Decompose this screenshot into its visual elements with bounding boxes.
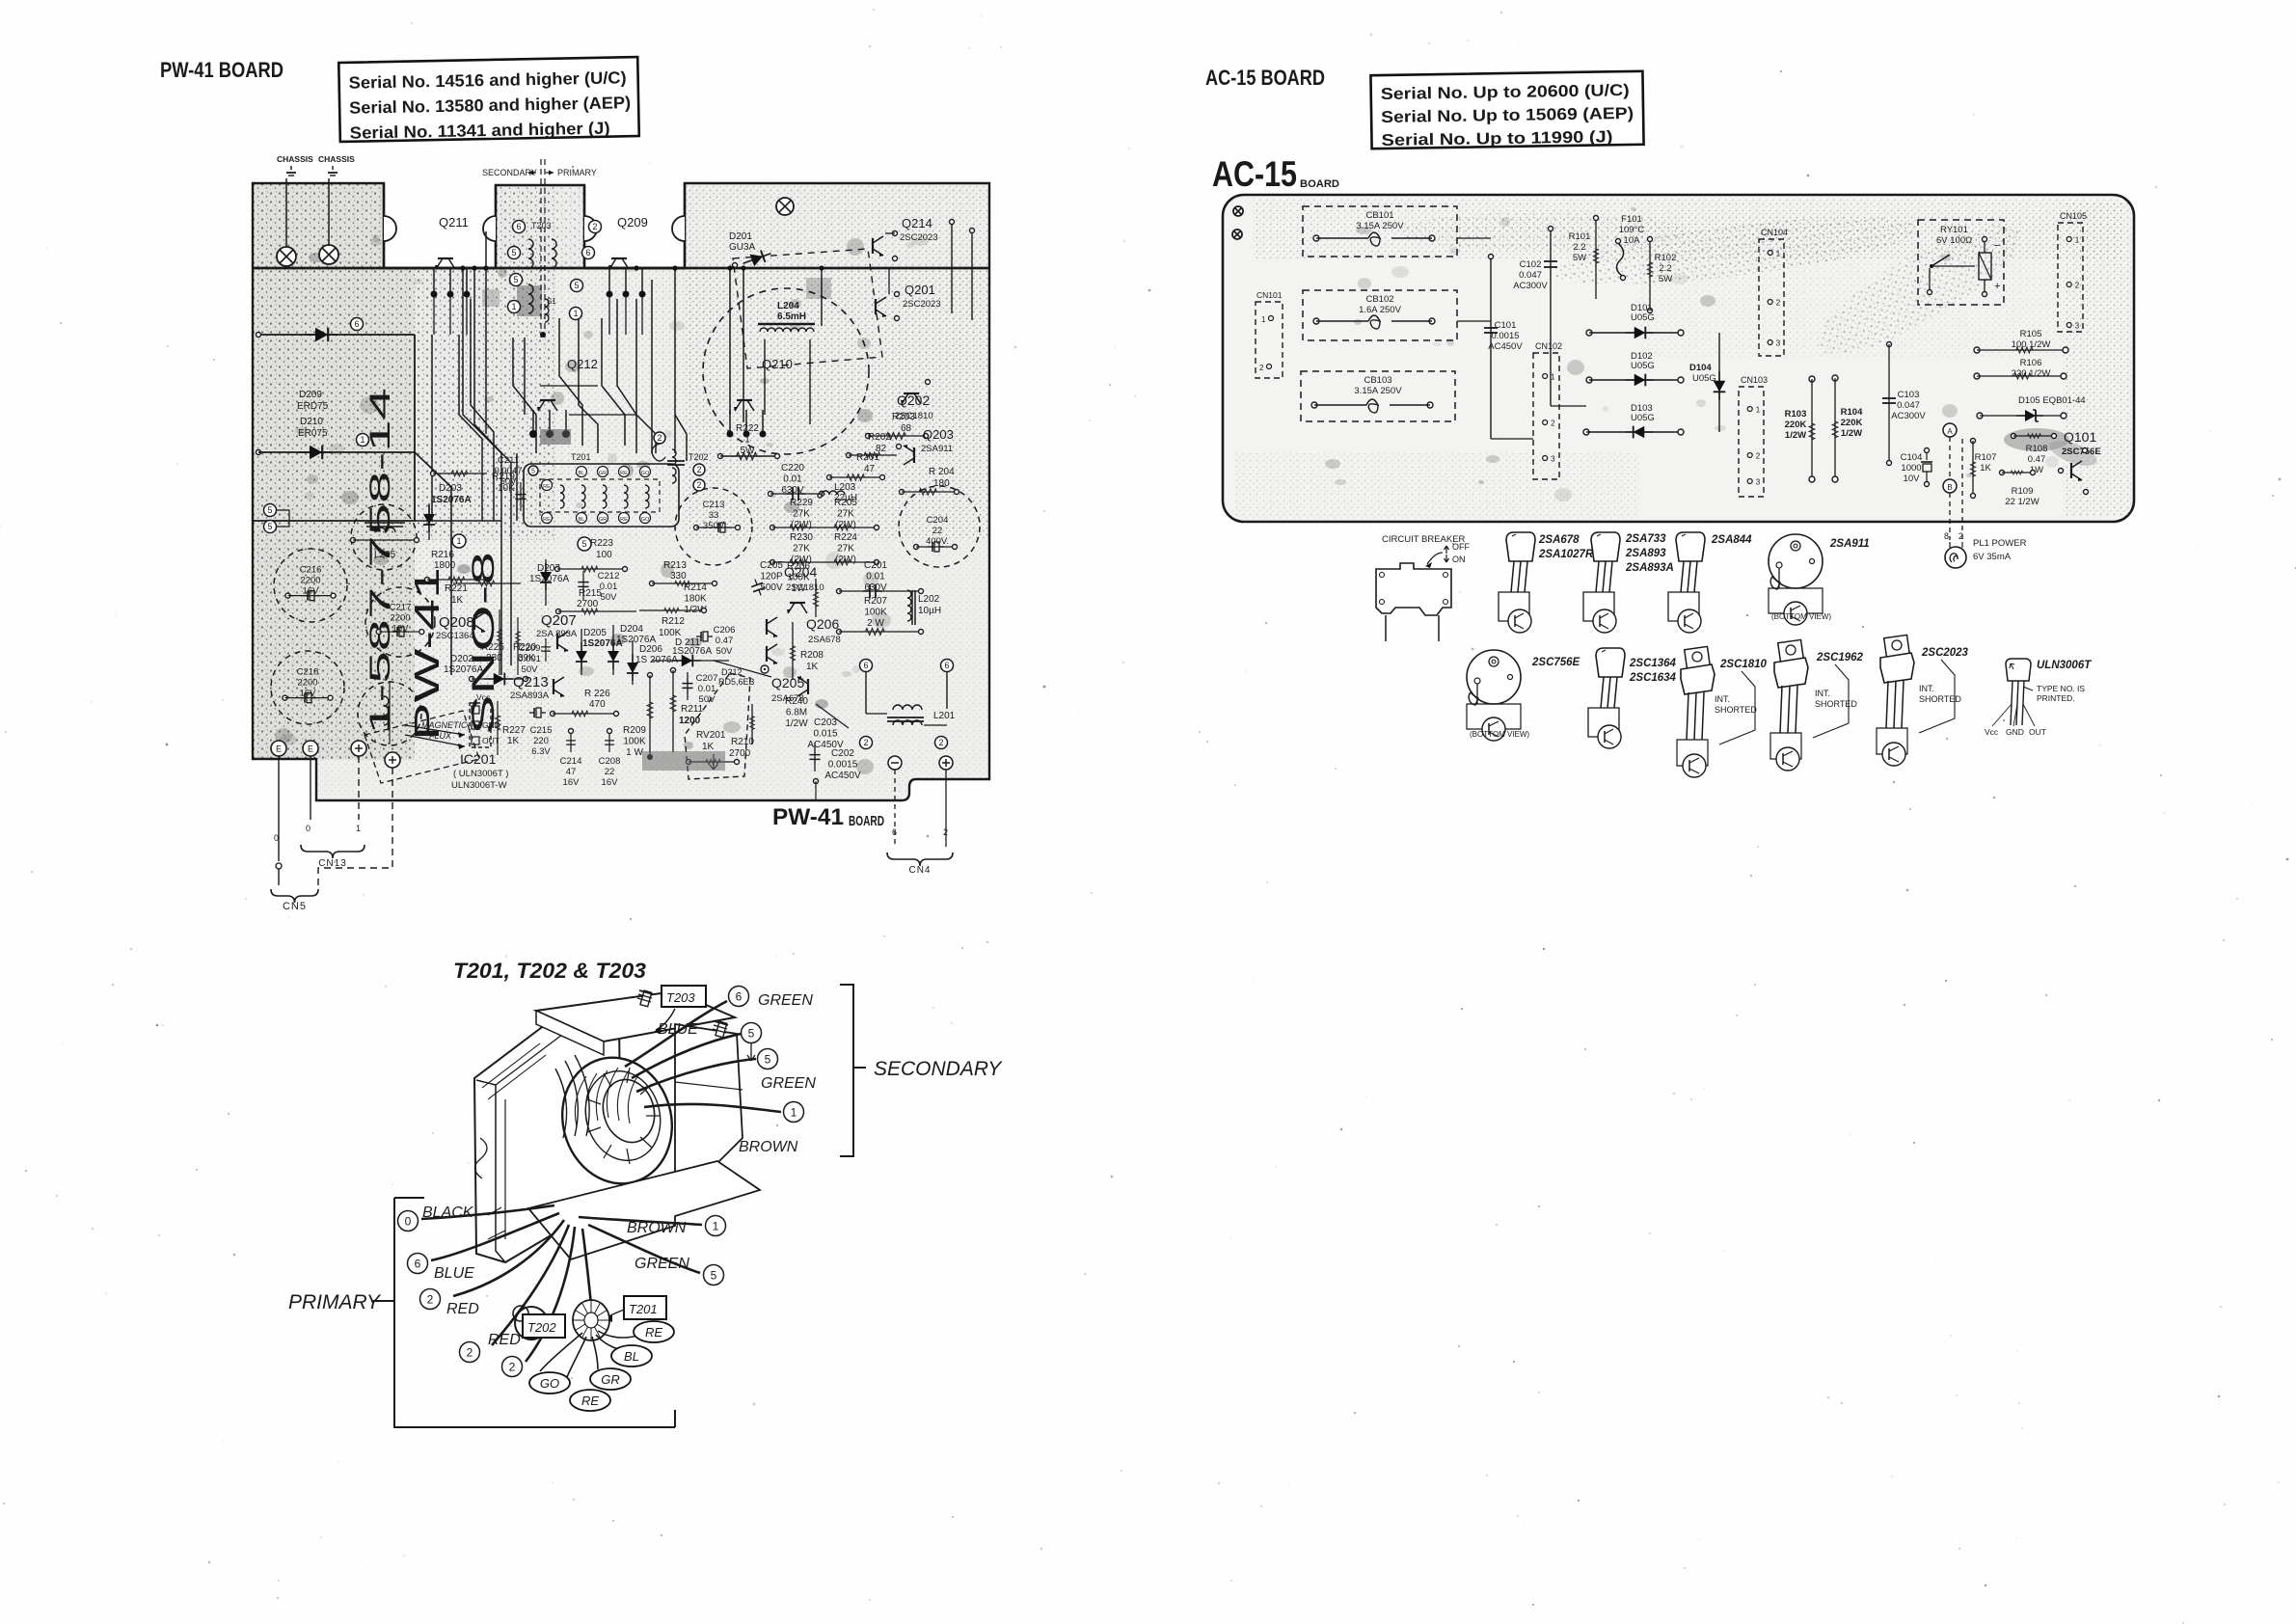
svg-text:OUT: OUT — [482, 736, 500, 745]
svg-text:6: 6 — [516, 222, 521, 231]
svg-text:C2070.0150V: C2070.0150V — [696, 673, 718, 705]
svg-text:3: 3 — [1756, 478, 1761, 487]
svg-text:RE: RE — [543, 484, 551, 490]
svg-text:ULN3006T-W: ULN3006T-W — [451, 780, 507, 791]
svg-text:1K: 1K — [806, 662, 819, 672]
svg-text:T202: T202 — [689, 452, 709, 462]
svg-text:R2406.8M1/2W: R2406.8M1/2W — [785, 696, 808, 729]
svg-text:6: 6 — [415, 1257, 421, 1270]
svg-text:OFF: OFF — [1452, 542, 1470, 552]
svg-text:1: 1 — [573, 309, 578, 318]
svg-text:IC201: IC201 — [460, 751, 497, 767]
svg-text:Serial No. Up to 20600 (U/C): Serial No. Up to 20600 (U/C) — [1381, 81, 1630, 103]
svg-text:5: 5 — [513, 275, 518, 284]
svg-text:BLACK: BLACK — [422, 1204, 474, 1221]
svg-text:AC-15 BOARD: AC-15 BOARD — [1205, 66, 1325, 90]
svg-text:RE: RE — [543, 517, 551, 523]
svg-text:2700: 2700 — [577, 599, 599, 609]
svg-text:D212: D212 — [721, 667, 743, 677]
svg-text:2: 2 — [1776, 299, 1781, 308]
svg-text:BROWN: BROWN — [739, 1139, 798, 1155]
svg-text:Q206: Q206 — [806, 616, 839, 632]
svg-text:RED: RED — [488, 1332, 521, 1348]
svg-text:3.15A 250V: 3.15A 250V — [1354, 386, 1402, 396]
svg-text:R207100K2 W: R207100K2 W — [864, 596, 887, 629]
svg-text:R202: R202 — [868, 432, 891, 443]
svg-text:5: 5 — [267, 522, 272, 531]
svg-text:CN105: CN105 — [2060, 211, 2087, 221]
svg-text:Q203: Q203 — [923, 427, 954, 442]
svg-text:SHORTED: SHORTED — [1815, 699, 1857, 709]
svg-text:1S2076A: 1S2076A — [444, 664, 483, 675]
svg-text:2SA893A: 2SA893A — [510, 690, 550, 701]
svg-text:R104220K1/2W: R104220K1/2W — [1841, 407, 1863, 439]
svg-text:U05G: U05G — [1692, 373, 1716, 384]
svg-text:2: 2 — [657, 433, 662, 443]
svg-text:C2090.00150V: C2090.00150V — [518, 643, 541, 675]
svg-text:2SC1810: 2SC1810 — [1719, 659, 1768, 670]
svg-text:Q209: Q209 — [617, 215, 648, 230]
svg-text:Vcc: Vcc — [1985, 727, 1999, 737]
svg-text:PW-41: PW-41 — [772, 804, 844, 830]
svg-text:1: 1 — [2075, 236, 2080, 245]
svg-text:D206: D206 — [639, 644, 662, 655]
svg-text:AC-15: AC-15 — [1212, 154, 1297, 194]
svg-text:3: 3 — [2075, 322, 2080, 331]
svg-text:R225: R225 — [481, 642, 504, 653]
svg-text:6: 6 — [944, 661, 949, 670]
svg-text:BL: BL — [579, 517, 585, 523]
svg-text:1800: 1800 — [434, 560, 456, 571]
svg-text:PRIMARY: PRIMARY — [557, 168, 597, 177]
svg-text:1: 1 — [713, 1219, 719, 1232]
svg-text:ER075: ER075 — [298, 428, 328, 439]
svg-text:T203: T203 — [666, 990, 695, 1005]
svg-text:U05G: U05G — [1631, 312, 1655, 323]
svg-text:1: 1 — [1261, 315, 1266, 324]
svg-text:BLUE: BLUE — [434, 1265, 474, 1282]
svg-text:PW-41 BOARD: PW-41 BOARD — [160, 58, 284, 82]
svg-text:1: 1 — [456, 536, 461, 546]
svg-text:R210: R210 — [731, 737, 754, 747]
svg-text:GR: GR — [599, 517, 607, 523]
svg-text:6: 6 — [863, 661, 868, 670]
svg-text:R213: R213 — [663, 560, 687, 571]
svg-text:6: 6 — [892, 827, 897, 837]
svg-text:Q211: Q211 — [439, 215, 469, 230]
svg-text:Q208: Q208 — [439, 614, 474, 631]
svg-text:BLUE: BLUE — [658, 1021, 698, 1038]
svg-text:2SA911: 2SA911 — [921, 444, 953, 454]
svg-text:6: 6 — [354, 319, 359, 329]
svg-text:470: 470 — [589, 699, 606, 710]
svg-text:2: 2 — [943, 827, 948, 837]
svg-text:CHASSIS: CHASSIS — [318, 154, 355, 164]
svg-text:BL: BL — [579, 471, 585, 476]
svg-text:GO: GO — [641, 471, 650, 476]
svg-text:U05G: U05G — [1631, 413, 1655, 423]
svg-text:1K: 1K — [451, 595, 464, 606]
svg-text:R 204: R 204 — [929, 467, 955, 477]
svg-text:2SC756E: 2SC756E — [1531, 657, 1580, 668]
svg-text:5: 5 — [748, 1026, 755, 1040]
svg-text:OUT: OUT — [2029, 727, 2046, 737]
svg-text:8: 8 — [1944, 531, 1949, 541]
svg-text:D203: D203 — [439, 483, 462, 494]
svg-text:2: 2 — [1756, 452, 1761, 461]
svg-text:1: 1 — [1756, 406, 1761, 415]
svg-text:INT.: INT. — [1815, 689, 1830, 698]
svg-text:B: B — [1947, 483, 1952, 492]
svg-text:1: 1 — [791, 1105, 797, 1119]
svg-text:CN13: CN13 — [318, 858, 347, 869]
svg-text:BROWN: BROWN — [627, 1220, 687, 1236]
svg-text:5: 5 — [511, 248, 516, 257]
svg-text:2SA678: 2SA678 — [1538, 534, 1580, 546]
svg-text:GR: GR — [601, 1372, 620, 1387]
svg-text:R208: R208 — [800, 650, 824, 661]
svg-text:CHASSIS: CHASSIS — [277, 154, 313, 164]
svg-text:C2060.4750V: C2060.4750V — [714, 625, 736, 657]
svg-text:1.6A 250V: 1.6A 250V — [1359, 305, 1402, 315]
svg-text:D205: D205 — [583, 628, 607, 638]
svg-text:2: 2 — [863, 738, 868, 747]
svg-text:2SA893: 2SA893 — [1625, 548, 1666, 559]
svg-text:2: 2 — [1259, 364, 1264, 372]
svg-text:D204: D204 — [620, 624, 643, 635]
svg-text:0: 0 — [274, 833, 279, 843]
svg-text:5: 5 — [267, 505, 272, 515]
svg-text:R219: R219 — [492, 472, 515, 482]
svg-text:1: 1 — [1551, 373, 1555, 382]
svg-text:RE: RE — [620, 517, 628, 523]
svg-text:Q213: Q213 — [513, 674, 549, 690]
svg-text:GO: GO — [540, 1376, 559, 1391]
svg-text:0: 0 — [306, 824, 311, 833]
svg-text:1K: 1K — [702, 742, 715, 752]
svg-text:5: 5 — [711, 1268, 717, 1282]
svg-text:T201: T201 — [571, 452, 591, 462]
svg-text:L204: L204 — [777, 301, 799, 311]
svg-text:R212: R212 — [662, 616, 685, 627]
svg-text:5: 5 — [531, 469, 535, 475]
svg-text:GO: GO — [641, 517, 650, 523]
svg-text:Q210: Q210 — [762, 357, 793, 371]
svg-text:3: 3 — [1551, 455, 1555, 464]
svg-text:PW-41: PW-41 — [407, 567, 446, 741]
svg-text:2: 2 — [938, 738, 943, 747]
svg-text:10µH: 10µH — [918, 606, 941, 616]
svg-text:D201: D201 — [729, 231, 752, 242]
svg-text:L203: L203 — [834, 482, 856, 493]
svg-text:CN4: CN4 — [908, 865, 931, 876]
svg-text:GR: GR — [599, 471, 607, 476]
svg-text:RD5,6EB: RD5,6EB — [718, 677, 755, 687]
svg-text:Q212: Q212 — [567, 357, 598, 371]
svg-text:47: 47 — [864, 464, 876, 474]
svg-text:GREEN: GREEN — [758, 992, 813, 1009]
svg-text:PRINTED.: PRINTED. — [2037, 693, 2075, 703]
svg-text:2700: 2700 — [729, 748, 751, 759]
svg-text:330: 330 — [670, 571, 687, 582]
svg-text:(BOTTOM VIEW): (BOTTOM VIEW) — [1771, 612, 1831, 621]
svg-text:SHORTED: SHORTED — [1919, 694, 1961, 704]
svg-text:SECONDARY: SECONDARY — [874, 1058, 1003, 1080]
svg-text:ULN3006T: ULN3006T — [2037, 660, 2092, 671]
svg-text:2SC1634: 2SC1634 — [1629, 672, 1677, 684]
svg-text:GREEN: GREEN — [635, 1256, 689, 1272]
svg-text:R 226: R 226 — [584, 689, 610, 699]
svg-text:SHORTED: SHORTED — [1715, 705, 1757, 715]
svg-text:D210: D210 — [300, 417, 323, 427]
svg-text:2SA911: 2SA911 — [1829, 538, 1870, 550]
svg-text:6: 6 — [736, 989, 743, 1003]
svg-text:1: 1 — [511, 302, 516, 311]
svg-text:BL: BL — [624, 1349, 639, 1364]
svg-text:68: 68 — [901, 423, 912, 434]
svg-text:RED: RED — [446, 1301, 479, 1317]
svg-text:C104100010V: C104100010V — [1901, 452, 1923, 484]
svg-text:RY101: RY101 — [1940, 225, 1968, 235]
svg-text:ERD75: ERD75 — [297, 401, 329, 412]
svg-text:GU3A: GU3A — [729, 242, 756, 253]
svg-text:2: 2 — [1551, 420, 1555, 428]
svg-text:ON: ON — [1452, 555, 1466, 564]
svg-text:Serial No. Up to 11990 (J): Serial No. Up to 11990 (J) — [1381, 127, 1612, 149]
svg-text:D104: D104 — [1689, 363, 1712, 373]
svg-text:CB102: CB102 — [1365, 294, 1393, 305]
svg-text:5: 5 — [581, 539, 586, 549]
svg-text:CN102: CN102 — [1535, 341, 1562, 351]
svg-text:INT.: INT. — [1715, 694, 1730, 704]
svg-text:2: 2 — [467, 1345, 473, 1359]
svg-text:1S2076A: 1S2076A — [431, 495, 472, 505]
svg-text:2SA733: 2SA733 — [1625, 533, 1666, 545]
svg-text:R215: R215 — [579, 588, 602, 599]
svg-text:6: 6 — [585, 248, 590, 257]
svg-text:100: 100 — [596, 550, 612, 560]
svg-text:R22927K(2W): R22927K(2W) — [790, 498, 813, 530]
svg-text:(BOTTOM VIEW): (BOTTOM VIEW) — [1470, 730, 1529, 739]
svg-text:GND: GND — [2006, 727, 2024, 737]
svg-text:5: 5 — [765, 1052, 771, 1066]
svg-text:Q201: Q201 — [905, 283, 935, 297]
svg-text:R216: R216 — [431, 550, 454, 560]
svg-text:T203: T203 — [531, 221, 552, 230]
svg-text:6V 35mA: 6V 35mA — [1973, 552, 2012, 562]
svg-text:C216220016V: C216220016V — [300, 565, 322, 597]
svg-text:TYPE NO. IS: TYPE NO. IS — [2037, 684, 2085, 693]
svg-text:+: + — [1994, 281, 2000, 292]
svg-text:CN101: CN101 — [1256, 290, 1283, 300]
svg-text:RE: RE — [645, 1325, 662, 1340]
svg-text:Q101: Q101 — [2064, 429, 2096, 445]
svg-text:T202: T202 — [527, 1320, 556, 1335]
svg-text:R23027K(2W): R23027K(2W) — [790, 532, 813, 565]
svg-text:C218220016V: C218220016V — [297, 667, 319, 699]
svg-text:Q207: Q207 — [541, 612, 577, 629]
svg-text:D209: D209 — [299, 390, 322, 400]
svg-text:2SC1962: 2SC1962 — [1816, 652, 1864, 663]
svg-text:2SA678: 2SA678 — [808, 635, 841, 645]
svg-text:1: 1 — [1776, 250, 1781, 258]
svg-text:RE: RE — [620, 471, 628, 476]
svg-text:2SC2023: 2SC2023 — [903, 299, 941, 310]
svg-text:2: 2 — [592, 222, 597, 231]
svg-text:2: 2 — [427, 1292, 434, 1306]
svg-text:2: 2 — [1958, 531, 1963, 541]
svg-text:Q214: Q214 — [902, 216, 932, 230]
svg-text:2SA1027R: 2SA1027R — [1538, 549, 1594, 560]
svg-text:R223: R223 — [590, 538, 613, 549]
svg-text:2SA844: 2SA844 — [1711, 534, 1752, 546]
svg-text:A: A — [1947, 427, 1953, 436]
svg-text:GREEN: GREEN — [761, 1075, 816, 1092]
svg-text:C217220016V: C217220016V — [390, 602, 412, 634]
svg-text:R103220K1/2W: R103220K1/2W — [1785, 409, 1807, 441]
svg-text:1: 1 — [356, 824, 361, 833]
svg-text:5: 5 — [574, 281, 579, 290]
svg-text:U05G: U05G — [1631, 361, 1655, 371]
svg-text:2SC2023: 2SC2023 — [900, 232, 938, 243]
svg-text:T201, T202 & T203: T201, T202 & T203 — [453, 959, 646, 983]
svg-text:2SC756E: 2SC756E — [2062, 447, 2101, 457]
svg-text:PL1 POWER: PL1 POWER — [1973, 538, 2027, 549]
svg-text:−: − — [1994, 240, 2000, 252]
svg-text:180: 180 — [933, 478, 950, 489]
svg-text:2SC1364: 2SC1364 — [1629, 658, 1677, 669]
svg-text:RV201: RV201 — [696, 730, 726, 741]
svg-text:Vcc: Vcc — [476, 692, 491, 702]
svg-text:2SC2023: 2SC2023 — [1921, 647, 1969, 659]
svg-text:6.5mH: 6.5mH — [777, 311, 806, 322]
svg-text:0: 0 — [405, 1214, 412, 1228]
svg-text:RE: RE — [581, 1394, 599, 1408]
svg-text:D105 EQB01-44: D105 EQB01-44 — [2018, 395, 2086, 406]
svg-text:2SC1364: 2SC1364 — [436, 631, 474, 641]
svg-text:R201: R201 — [856, 452, 879, 463]
svg-text:2: 2 — [2075, 282, 2080, 290]
svg-text:2: 2 — [509, 1360, 516, 1373]
svg-text:CN104: CN104 — [1761, 228, 1788, 237]
svg-text:2SC1810: 2SC1810 — [895, 411, 933, 421]
svg-text:1K: 1K — [507, 736, 520, 746]
svg-text:2SA893A: 2SA893A — [1625, 562, 1674, 574]
svg-text:( ULN3006T ): ( ULN3006T ) — [453, 769, 508, 779]
svg-text:R221: R221 — [445, 583, 468, 594]
svg-text:PRIMARY: PRIMARY — [288, 1291, 382, 1313]
svg-text:INT.: INT. — [1919, 684, 1934, 693]
svg-text:3.15A 250V: 3.15A 250V — [1356, 221, 1404, 231]
svg-text:D202: D202 — [450, 654, 473, 664]
svg-text:CB101: CB101 — [1365, 210, 1393, 221]
svg-text:L201: L201 — [933, 711, 956, 721]
svg-text:2: 2 — [696, 465, 701, 474]
svg-text:BOARD: BOARD — [1300, 178, 1339, 190]
svg-text:BOARD: BOARD — [849, 813, 884, 829]
svg-text:2: 2 — [696, 480, 701, 490]
svg-text:CN103: CN103 — [1741, 375, 1768, 385]
svg-text:E: E — [308, 744, 313, 754]
svg-text:CB103: CB103 — [1364, 375, 1391, 386]
svg-text:E: E — [276, 744, 282, 754]
svg-text:L202: L202 — [918, 594, 940, 605]
svg-text:6V 100Ω: 6V 100Ω — [1936, 235, 1972, 246]
svg-text:R22427K(2W): R22427K(2W) — [834, 532, 857, 565]
svg-text:R227: R227 — [502, 725, 526, 736]
svg-text:T201: T201 — [629, 1302, 658, 1316]
svg-text:CN5: CN5 — [283, 901, 307, 912]
svg-text:L205: L205 — [374, 550, 396, 560]
svg-text:10K: 10K — [498, 483, 515, 494]
svg-text:R20527K(2W): R20527K(2W) — [834, 498, 857, 530]
svg-text:3: 3 — [1776, 339, 1781, 348]
